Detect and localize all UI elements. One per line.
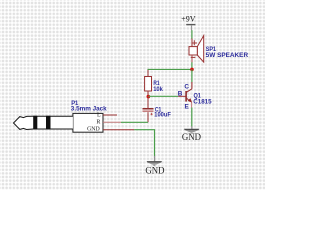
- wire top horizontal: [148, 68, 192, 70]
- svg-text:5W SPEAKER: 5W SPEAKER: [206, 52, 249, 59]
- junction node base/R1/C1: [147, 95, 151, 99]
- wire speaker to junction: [191, 62, 193, 69]
- connector P1 3.5mm jack body: [14, 113, 104, 132]
- svg-text:GND: GND: [145, 165, 165, 175]
- wire C1 to jack R pin: [121, 121, 148, 123]
- junction node speaker/collector: [190, 68, 194, 72]
- power terminal symbol: [186, 24, 195, 31]
- svg-text:GND: GND: [182, 132, 202, 142]
- svg-text:100uF: 100uF: [154, 112, 171, 119]
- svg-text:10k: 10k: [153, 86, 163, 93]
- jack pin GND stub: [103, 129, 134, 131]
- jack pin L stub: [103, 114, 117, 116]
- transistor Q1: [178, 82, 192, 108]
- speaker SP1: [189, 36, 204, 63]
- svg-text:E: E: [185, 103, 190, 110]
- wire collector: [191, 69, 193, 82]
- wire emitter to ground: [191, 108, 193, 127]
- jack pin R stub: [103, 121, 121, 123]
- svg-text:GND: GND: [87, 126, 100, 132]
- svg-text:L: L: [97, 113, 101, 119]
- svg-text:C1815: C1815: [193, 98, 212, 105]
- svg-text:C: C: [184, 84, 189, 91]
- svg-text:+9V: +9V: [181, 15, 196, 24]
- svg-text:3.5mm Jack: 3.5mm Jack: [71, 106, 107, 113]
- svg-text:R: R: [96, 120, 100, 126]
- wire base horizontal: [148, 95, 178, 97]
- wire jack GND to ground: [134, 130, 154, 157]
- wire corner to R1: [147, 69, 149, 70]
- wire +9V to speaker: [191, 30, 193, 39]
- ground symbol (transistor emitter): [184, 126, 199, 133]
- ground symbol (jack): [147, 156, 162, 166]
- svg-text:B: B: [178, 91, 183, 98]
- capacitor C1: [143, 97, 154, 123]
- resistor R1: [145, 70, 152, 97]
